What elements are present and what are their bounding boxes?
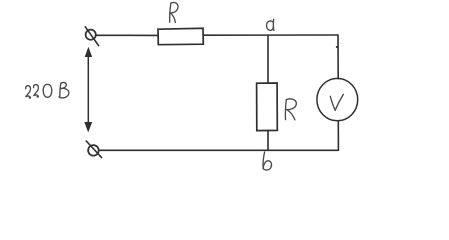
wire: top-right corner down to voltmeter (337, 35, 339, 79)
wire: resistor R1 to node a to top-right corner (203, 34, 338, 36)
source terminal top (circle with slash) (85, 27, 98, 46)
letter В (Cyrillic) (59, 83, 62, 97)
resistor R1 (series, horizontal box) (158, 28, 203, 44)
voltmeter V1 (circle) (317, 78, 358, 120)
digit 2 (first) (26, 86, 31, 98)
label V inside voltmeter (330, 95, 343, 111)
voltage arrow (double-headed, between terminals) (85, 48, 92, 131)
label R of resistor R2 (handwritten script) (285, 99, 296, 120)
wire: top-left terminal to resistor R1 (96, 34, 159, 36)
label R of resistor R1 (handwritten script) (170, 2, 178, 22)
resistor R2 (load, vertical box) (257, 83, 278, 131)
wire: voltmeter down to bottom-right corner (337, 121, 339, 150)
wire: resistor R2 down to node b (267, 131, 269, 151)
wire: bottom rail from terminal to bottom-right corner (99, 149, 338, 151)
digit 2 (second) (34, 85, 39, 97)
digit 0 (43, 84, 52, 97)
source terminal bottom (circle with slash) (86, 141, 101, 158)
ink dot on right vertical wire (336, 46, 338, 48)
node a (junction label) (267, 19, 274, 30)
label 220 V (handwritten, Cyrillic В) (26, 82, 69, 98)
wire: node a down to resistor R2 (267, 35, 269, 83)
node b (junction label) (263, 152, 271, 170)
